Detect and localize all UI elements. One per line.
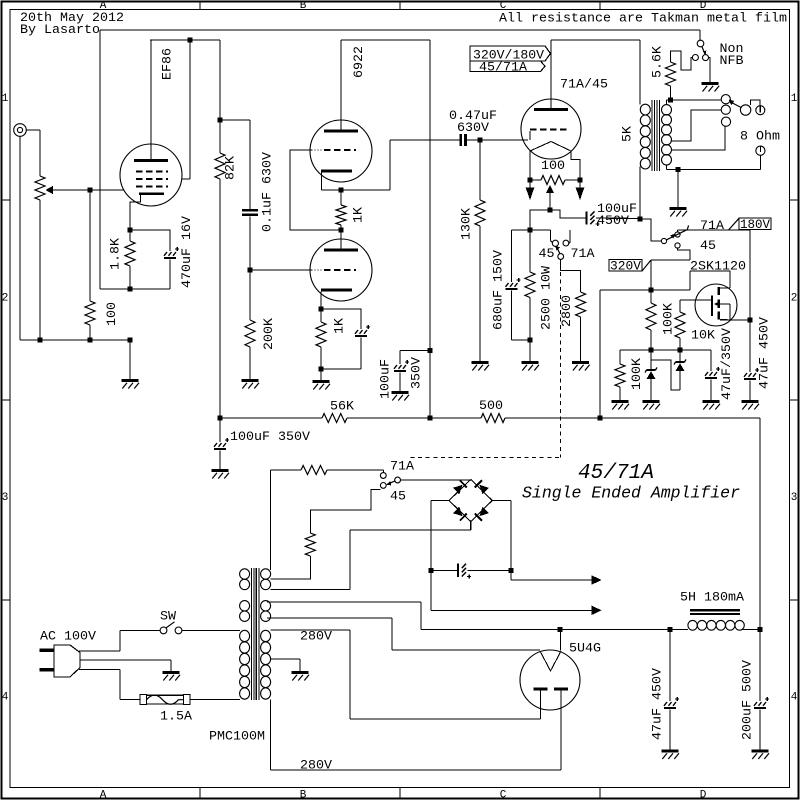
transformer PMC100M core [250,568,252,700]
ground HV center [292,671,309,674]
svg-text:1: 1 [791,93,798,105]
node 71A grid [478,138,483,143]
bridge rectifier D1-D4 [449,479,492,521]
svg-text:45: 45 [700,238,716,253]
terminal tap 8ohm [721,105,730,114]
transformer OT primary [639,40,641,105]
EF86 plate [134,159,168,162]
svg-text:6922: 6922 [351,46,366,78]
capacitor 0.1uF 630V coupling [242,209,258,212]
wire NFB line [100,29,700,31]
svg-text:56K: 56K [330,399,354,414]
terminal tap 4ohm [721,117,730,126]
ground first filter [212,469,229,472]
transformer OT secondary [662,105,672,115]
resistor 1K upper [340,190,342,205]
svg-text:180V: 180V [740,217,770,232]
EF86 grids [136,171,143,173]
svg-text:320V: 320V [610,258,641,273]
wire pot bottom down [39,200,41,340]
node B+ EF86 [218,416,223,421]
flag 180V [729,218,740,230]
resistor 2800 [576,292,586,317]
wire filament dc minus [431,609,592,611]
svg-text:280V: 280V [300,628,332,643]
wire 180V rail down [749,230,751,372]
71A plate [534,108,568,111]
ground 47uF350V [703,400,720,403]
PMC secondary G1 right [261,569,271,579]
ground V2b [313,380,330,383]
resistor 5.6K feedback [670,86,672,100]
choke 5H 180mA [690,609,740,611]
Q1 gate bar [711,296,713,317]
resistor filament 45 [305,533,315,556]
svg-text:71A: 71A [571,246,595,261]
wire 320V feed [600,289,651,291]
node cathode rail [528,228,533,233]
5U4G plate left [534,688,548,691]
wire gang link dashed [560,272,562,458]
wire to speaker terminal [759,155,761,169]
svg-text:5.6K: 5.6K [650,46,665,78]
wire fuse to transformer [190,699,240,701]
node choke out [758,627,763,632]
svg-text:1.5A: 1.5A [160,709,192,724]
wire heater G2 top [267,601,421,603]
wire secondary tap3 [672,126,725,150]
svg-text:500: 500 [479,398,503,413]
capacitor 47uF/350V [710,350,712,371]
wire NFB to cathode [100,288,130,290]
capacitor 100uF 450V ultrapath [586,211,588,224]
capacitor 200uF 500V [759,630,761,702]
flag 320V/180V [470,46,551,61]
tube 6922 V2a upper envelope [310,120,372,182]
capacitor 47uF 450V fet [744,373,747,377]
svg-text:1K: 1K [351,207,366,223]
resistor 200K grid leak [249,270,251,320]
wire resistor to throw45 [310,490,380,533]
wire B+ output line [421,629,688,631]
71A grid [529,131,531,140]
wire common to bridge [401,479,471,481]
resistor 1K lower [316,322,326,347]
wire 6922 B+ riser [429,40,431,418]
node source [748,318,753,323]
tube 5U4G envelope [520,650,580,710]
resistor 10K gate [679,300,681,312]
wire throw 71A to 180V rail [677,230,679,232]
zener D6 [679,350,681,362]
svg-text:47uF 450V: 47uF 450V [650,668,665,740]
svg-text:8 Ohm: 8 Ohm [740,129,780,144]
switch throw 71A [675,232,680,237]
node filament takeoff [558,627,563,632]
wire bridge plus [492,500,511,502]
wire 320V riser [599,290,601,418]
node zener B [678,348,683,353]
ground 200K [242,379,259,382]
wire SW to transformer [182,629,240,631]
wire cathode rail [322,189,391,191]
wire HV center tap [271,658,300,660]
wire speaker arm hook [751,100,761,106]
wire filament right [571,151,580,180]
wire wiper to grid [53,189,124,191]
wire filament left [529,151,531,180]
wire switch to 2800 [561,259,581,292]
svg-text:45/71A: 45/71A [479,59,527,74]
node rail C [128,338,133,343]
V2a grid [311,149,313,151]
wire HV top 280V [271,629,350,631]
node B+ main [598,416,603,421]
wire NFB switch to ground [709,58,711,84]
svg-text:47uF/350V: 47uF/350V [719,328,734,400]
ground 100K [612,400,629,403]
svg-text:45/71A: 45/71A [578,461,654,485]
wire rail to ground [129,340,131,380]
capacitor 100uF 350V second [400,350,430,352]
node rail A [38,338,43,343]
capacitor filament filter [431,569,457,571]
switch heater select common [395,477,401,483]
capacitor 47uF 450V psu [669,630,671,702]
node hum pot left [528,178,533,183]
wire 320V label link [651,259,690,261]
capacitor 0.47uF 630V coupling [460,134,463,146]
wire secondary bottom [666,165,668,170]
svg-text:All resistance are Takman meta: All resistance are Takman metal film [499,11,787,26]
svg-text:200K: 200K [261,318,276,350]
svg-text:100uF 350V: 100uF 350V [230,429,310,444]
wire bridge minus [431,500,449,502]
71A filament [530,142,571,152]
switch heater select throw 45 [380,483,386,489]
wire wiper to ultrapath cap [550,210,587,218]
svg-text:2SK1120: 2SK1120 [690,258,746,273]
wire 71A plate rail [551,39,640,41]
EF86 cathode [139,192,164,195]
node decouple [428,348,433,353]
PMC secondary G2 right [261,601,271,611]
wire secondary to ground [677,170,679,209]
wire to ground V2b [320,369,322,381]
wire HV bottom 280V [270,699,272,770]
svg-text:71A: 71A [700,218,724,233]
svg-text:NFB: NFB [720,53,744,68]
svg-text:82K: 82K [223,156,238,180]
switch lever B+ select [666,230,687,240]
arrow filament supply left [529,183,531,188]
svg-text:470uF 16V: 470uF 16V [179,216,194,288]
resistor filament 71A [271,469,301,471]
wire 320V to node [650,260,652,290]
V2b grid [311,269,313,271]
svg-text:5H 180mA: 5H 180mA [680,590,744,605]
5U4G plate right [554,688,568,691]
svg-text:1K: 1K [332,318,347,334]
PMC HV winding right [261,630,271,641]
node V2b cathode [319,307,324,312]
wire filament tap top [270,470,272,570]
wire V2a grid return [290,150,341,230]
terminal speaker out [756,146,765,155]
node cathode bottom [128,287,133,292]
svg-text:B: B [300,790,307,800]
node 320V [649,288,654,293]
switch NFB throw right [703,55,709,61]
wire drain feed [651,289,690,291]
svg-text:100K: 100K [661,303,676,335]
switch B+ select common [661,238,666,243]
resistor 100 grid return [89,192,91,301]
svg-text:1.8K: 1.8K [108,238,123,270]
wire to B+ select switch [640,219,661,241]
svg-text:680uF 150V: 680uF 150V [491,250,506,330]
svg-text:SW: SW [160,609,176,624]
wire grid lower triode [250,269,312,271]
resistor 130K grid leak [479,140,481,200]
svg-text:100K: 100K [629,358,644,390]
resistor 100K to ground [619,350,621,364]
node bridge minus [428,568,433,573]
svg-text:C: C [500,790,507,800]
svg-text:100: 100 [104,302,119,326]
wire filament winding bottom [271,589,350,591]
switch heater lever [388,481,395,484]
svg-text:100: 100 [541,158,565,173]
node zener A [649,348,654,353]
wire secondary tap2 [672,110,722,141]
svg-text:3: 3 [2,492,9,504]
svg-text:2: 2 [791,293,798,305]
capacitor 680uF 150V [511,230,513,282]
node 1K lower bottom [319,367,324,372]
tube EF86 V1 envelope [120,144,182,206]
flag 45/71A [470,61,545,72]
wire heater G2 bottom [267,617,392,619]
svg-text:130K: 130K [459,208,474,240]
node B+ 6922 [428,416,433,421]
wire cathode switch stub [569,242,571,244]
svg-text:A: A [100,790,107,800]
switch cathode lever [556,246,560,254]
svg-text:45: 45 [539,246,555,261]
arrow filament supply right [579,183,581,188]
wire zener rail [620,349,711,351]
svg-text:3: 3 [791,492,798,504]
svg-text:350V: 350V [409,357,424,389]
ground input stage [122,379,139,382]
Q1 source lead [720,319,748,321]
svg-text:5U4G: 5U4G [569,641,601,656]
resistor 56K [322,414,347,423]
svg-text:47uF 450V: 47uF 450V [757,317,772,389]
wire 6922 plate supply [341,39,430,41]
node hum pot right [578,178,583,183]
fuse 1.5A [140,695,147,705]
transformer OT core [651,100,653,171]
svg-text:200uF 500V: 200uF 500V [740,660,755,740]
svg-text:280V: 280V [300,757,332,772]
arrow hum wiper [546,185,554,193]
arrow filament dc minus [592,606,602,616]
wire jack sleeve down [19,136,21,340]
ground 47uF450V [742,400,759,403]
input jack J1 [14,124,27,137]
capacitor cathode bypass [321,309,361,329]
flag 320V [609,260,642,272]
svg-text:EF86: EF86 [160,48,175,80]
node 6922 grid [248,268,253,273]
ground 47uF psu [662,750,679,753]
svg-text:4: 4 [791,692,798,704]
node screen tap [188,38,193,43]
switch speaker lever [732,103,742,108]
ground mains earth [163,671,180,674]
wire wiper to cathode rail [530,210,550,230]
svg-text:D: D [700,790,707,800]
wire zener series link [651,360,680,390]
svg-text:0.1uF 630V: 0.1uF 630V [260,152,275,232]
svg-text:Single Ended Amplifier: Single Ended Amplifier [522,484,740,503]
PMC primary G1 left [240,569,250,579]
svg-text:450V: 450V [597,213,629,228]
svg-text:1: 1 [2,93,9,105]
wire V2b cathode lead [320,291,322,309]
svg-text:PMC100M: PMC100M [209,729,265,744]
potentiometer VR1 volume [35,176,45,200]
switch Non NFB common [697,40,704,47]
svg-text:B: B [300,0,307,12]
ground second filter [392,391,409,394]
node 1K top [339,188,344,193]
resistor 82K plate load [219,40,221,120]
ground 130K [472,361,489,364]
node bridge plus [509,568,514,573]
svg-text:2: 2 [2,293,9,305]
5U4G filament [540,651,561,671]
node 82K top [218,118,223,123]
wire B+ from choke [759,418,761,630]
terminal tap 16ohm [721,95,730,104]
resistor 500 [481,414,505,423]
wire screen grid [189,40,191,179]
PMC primary G2 left [240,601,250,611]
V2a cathode [321,170,352,173]
switch NFB lever [702,46,705,54]
node 2500 bottom [528,338,533,343]
V2a plate [324,130,358,133]
node wiper junction [88,188,93,193]
wire filament dc plus [511,579,592,581]
switch speaker arm terminal [756,106,765,115]
PMC primary G3 left [240,630,250,641]
ground 2800 [572,361,589,364]
wire plug to fuse [79,669,120,671]
svg-text:5K: 5K [620,126,635,142]
wire EF86 plate rail [150,39,220,41]
switch heater select throw 71A [380,473,386,479]
wire jack to pot [26,129,40,131]
switch NFB throw left [692,55,698,61]
tube 71A/45 envelope [521,99,581,159]
capacitor 100uF 350V first [219,418,221,442]
svg-text:2800: 2800 [559,295,574,327]
svg-text:AC 100V: AC 100V [40,629,96,644]
svg-text:4: 4 [2,692,9,704]
node secondary ground [676,167,681,172]
capacitor 470uF 16V [130,230,170,251]
ground 2500 [522,361,539,364]
ground NFB [702,82,719,85]
resistor 100K from 320V [650,290,652,303]
node cathode tap [548,208,553,213]
resistor 1.8K cathode [129,230,131,241]
wire input ground rail [20,339,130,341]
svg-text:10K: 10K [691,328,715,343]
wire to 5U4G filament [559,630,561,651]
wire to coupling cap [220,119,250,121]
Q1 channel [718,287,721,295]
wire cathode rail [512,229,551,231]
wire V2a cathode lead [321,172,323,190]
wire EF86 cathode lead [130,195,141,230]
svg-text:2500 10W: 2500 10W [539,266,554,330]
Q1 drain lead [720,287,730,289]
transistor Q1 2SK1120 envelope [695,284,737,326]
wire secondary top tap [666,100,668,105]
switch SW mains [160,627,167,634]
node cathode top [128,228,133,233]
arrow filament dc plus [592,575,602,585]
svg-text:630V: 630V [457,120,489,135]
wire plug earth [80,659,171,661]
node 5.6K tap [668,98,673,103]
V2b plate [324,249,358,252]
zener D5 [650,350,652,370]
V2b cathode [321,289,352,292]
node 1K bottom [339,228,344,233]
switch speaker select pivot [740,105,750,115]
svg-text:45: 45 [390,489,406,504]
svg-text:By Lasarto: By Lasarto [20,22,100,37]
wire NFB rail to switch [699,30,701,40]
potentiometer 100 hum balance [530,179,541,181]
wire SRPP output [389,140,391,190]
ground zener [643,400,660,403]
Q1 substrate arrow [714,301,720,307]
wire plug to SW [79,650,120,652]
switch throw 45 [675,243,680,248]
node OT bottom [638,217,643,222]
node 47uF tap [668,627,673,632]
wire B+ rail [220,417,322,419]
wire throw 45 to 320V [678,248,691,260]
resistor 2500 10W [529,230,531,272]
svg-text:100uF: 100uF [378,359,393,399]
node rail B [88,338,93,343]
svg-text:71A/45: 71A/45 [560,77,608,92]
tube 6922 V2b lower envelope [310,239,372,301]
ground secondary [670,207,687,210]
switch cathode select [549,230,551,241]
ground 200uF [752,750,769,753]
wire filament tap mid [271,556,311,579]
plug AC 100V [54,645,80,677]
